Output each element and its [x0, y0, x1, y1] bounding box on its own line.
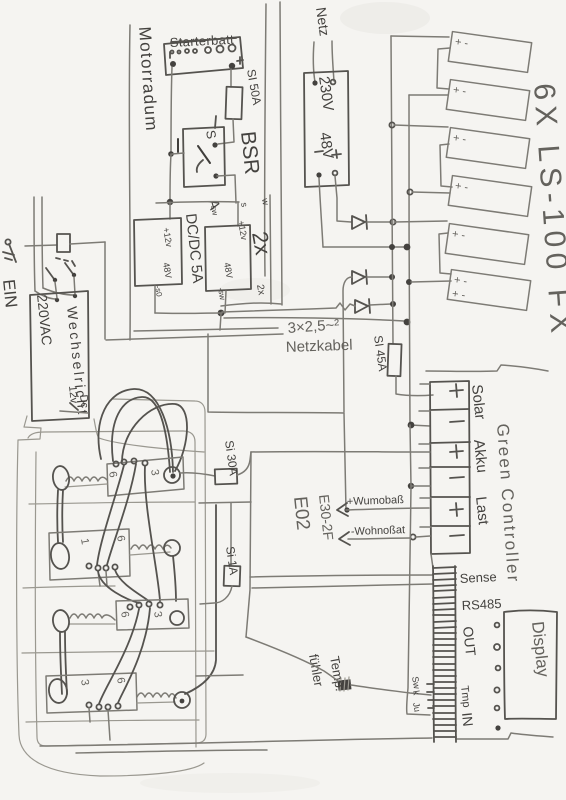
strand K1c-K3: [145, 466, 160, 601]
node bus2 solar-: [408, 422, 415, 429]
node DCDC out: [218, 310, 225, 317]
wire right DCDC bottom: [225, 291, 226, 313]
wire sensor lead to strip: [351, 685, 431, 695]
strand K2 pin drop: [98, 571, 107, 586]
wire charge feed L-shape: [208, 334, 346, 510]
wire DCDC bottom bus: [155, 312, 222, 314]
plus terminal dot: [229, 63, 235, 69]
terminal oval K1: [51, 465, 70, 491]
strip rungs group4 Tmp: [433, 664, 456, 706]
dashed switch link: [56, 258, 75, 266]
bus2 vertical: [409, 95, 410, 425]
wire to relay enclosure: [104, 242, 106, 339]
link K3-K4: [60, 632, 67, 694]
diode D3: [355, 299, 370, 313]
wire charger minus to bus: [323, 246, 405, 248]
display box: [504, 611, 557, 720]
wire left DCDC bottom: [154, 286, 156, 313]
coil K2: [131, 545, 171, 549]
svg-text:+ -: + -: [452, 132, 467, 146]
paper smudge top: [340, 2, 430, 34]
wire inverter to cabinet right: [94, 419, 204, 452]
coil K2 base: [130, 552, 170, 555]
svg-text:Sense: Sense: [459, 569, 497, 586]
plus last: [450, 503, 463, 516]
K2 pin circles: [86, 563, 117, 570]
shelf line 1: [29, 502, 195, 504]
display pin 3: [496, 666, 501, 671]
strand K1a-K2: [97, 465, 124, 565]
wire stub left low: [196, 675, 243, 676]
wire bus2 to B6: [411, 281, 451, 282]
svg-text:Netzkabel: Netzkabel: [286, 337, 353, 356]
charger 230V/48V box: [304, 71, 349, 187]
wire long rs485: [252, 584, 433, 588]
converter DC/DC right box: [205, 225, 251, 291]
strip rungs group1 Sense: [433, 567, 456, 591]
svg-text:+ -: + -: [451, 228, 466, 242]
wire bus2 top to B2: [409, 94, 448, 96]
wire N to contact: [43, 288, 74, 295]
node junction A: [167, 199, 173, 205]
wire contact down 1: [55, 282, 57, 298]
node big circle K2: [164, 540, 180, 556]
minus akku: [450, 477, 464, 478]
strip rungs group3 OUT: [433, 621, 456, 657]
display pin 2: [494, 644, 500, 650]
wire inverter out right: [60, 411, 88, 413]
terminal oval K2: [49, 542, 70, 570]
wire bottom right of strip: [456, 733, 553, 739]
display pin 4: [494, 687, 499, 692]
svg-text:+ -: + -: [452, 84, 467, 98]
wire bottom stub: [76, 750, 267, 753]
wire bus1 to B3: [394, 125, 448, 127]
minus tick BSR: [177, 139, 179, 152]
diode D1: [352, 215, 367, 229]
wire D3 to bus: [370, 304, 391, 305]
relay K3 box: [116, 599, 189, 630]
terminal circle plus out: [333, 171, 338, 176]
temp sensor body: [338, 679, 352, 690]
paper shadow bottom: [140, 773, 320, 793]
strip left stubs: [427, 684, 434, 708]
minus sign: [169, 52, 171, 58]
wire horizontal to Si1A: [199, 502, 251, 503]
battery B6: [447, 270, 530, 311]
wire long bottom IN: [40, 738, 432, 746]
flying arc 2: [112, 397, 170, 472]
series link B1-B2: [437, 48, 450, 89]
contact blade 2: [65, 263, 73, 274]
wire netz L: [313, 42, 315, 82]
terminal oval K3: [52, 609, 71, 633]
strand K1b-K2: [107, 464, 136, 565]
wire AC N vertical: [42, 197, 43, 288]
node D3 bus: [390, 301, 396, 307]
battery B5: [445, 224, 528, 265]
controller terminal block: [430, 381, 470, 554]
contact dot 2a: [72, 273, 76, 277]
fuse SI 50A: [225, 87, 242, 120]
wire sensor feed: [246, 637, 338, 681]
minus last: [450, 535, 464, 536]
switch EIN blade: [9, 244, 16, 262]
node big circle K3: [170, 611, 184, 625]
block divider 3: [430, 466, 470, 468]
contact blade 1: [46, 268, 54, 279]
wire D2 to bus: [367, 276, 390, 278]
wire bus1 top to B1: [391, 36, 449, 37]
strand K2b: [115, 570, 150, 602]
node big circle K1: [164, 467, 180, 483]
wire AC horizontal: [25, 245, 57, 246]
shelf line 3: [22, 651, 214, 653]
contact dot 1b: [55, 298, 59, 302]
terminal dot minus out: [316, 172, 321, 177]
strand K2a: [98, 571, 139, 603]
switch EIN circle: [5, 239, 10, 244]
connector strip right rail: [455, 566, 456, 742]
strikethrough on label: [171, 38, 236, 42]
plus akku: [450, 445, 463, 458]
paper smudge mid: [220, 278, 290, 302]
relay cabinet inner: [35, 399, 206, 746]
coil K3 base: [69, 623, 115, 625]
arrowhead wohnmobatt-: [339, 532, 350, 545]
node big circle K4: [174, 692, 190, 708]
link K1-K2: [57, 490, 63, 542]
wire bus2 to solar-: [410, 425, 430, 426]
relay K1 box: [107, 457, 184, 496]
arrowhead wohnmobatt+: [337, 503, 348, 516]
plus sign: [237, 57, 243, 64]
switch arc mark: [197, 160, 203, 172]
wire horizontal to DCDC: [156, 202, 239, 203]
wire starter minus down: [171, 67, 172, 154]
switch EIN base: [3, 252, 14, 260]
enclosure right vertical 2: [280, 2, 282, 305]
wire K1 circle to fuse: [180, 473, 215, 476]
wire minus bus down: [170, 154, 171, 201]
svg-text:2x: 2x: [254, 284, 267, 296]
relay cabinet outer: [17, 416, 204, 776]
wire controller to strip: [431, 554, 433, 568]
battery B1: [448, 32, 531, 73]
svg-text:+ -: + -: [451, 288, 466, 302]
wire starter plus down to fuse: [230, 69, 232, 87]
wire bus2 to akku-: [410, 425, 430, 486]
relay K4 box: [46, 673, 137, 713]
wire akku+ long (Si30A feed): [251, 451, 430, 453]
svg-text:Solar: Solar: [468, 384, 489, 421]
battery B2: [446, 80, 529, 121]
node BSR minus: [168, 151, 174, 157]
wire node to box: [172, 153, 184, 154]
svg-text:+ -: + -: [453, 274, 468, 288]
coil K1 base: [65, 484, 107, 487]
diode D2: [352, 270, 367, 284]
node bus2 B4: [407, 189, 412, 194]
svg-text:+ -: + -: [454, 36, 469, 50]
wire fuse to BSR: [218, 119, 234, 144]
wire netzkabel 3: [221, 303, 281, 306]
flying arc 3: [122, 404, 187, 471]
block divider 1: [430, 409, 469, 410]
wire fuse to controller solar+: [396, 376, 433, 396]
BSR pin lower: [213, 173, 218, 178]
tick solar-: [419, 410, 430, 412]
terminal oval K4: [47, 678, 68, 704]
node bus2 230Vminus: [404, 244, 411, 251]
enclosure left edge: [128, 25, 131, 340]
terminal circle N in: [331, 80, 336, 85]
minus sign out: [315, 151, 323, 152]
enclosure bottom edge: [106, 334, 283, 340]
svg-text:3×2,5~²: 3×2,5~²: [287, 316, 340, 337]
strand K4 drop 1: [89, 708, 90, 722]
wire long sense: [250, 575, 433, 577]
display pin 1: [495, 623, 500, 628]
coil K1: [66, 477, 107, 481]
tick akku-: [419, 467, 431, 469]
wire bus2 to B4: [412, 192, 450, 193]
wire K2 circle down: [173, 556, 176, 601]
fuse SI 45A: [387, 344, 401, 376]
svg-text:OUT: OUT: [460, 626, 479, 658]
svg-text:E02: E02: [289, 495, 313, 531]
block divider 5: [431, 525, 470, 527]
fuse Si 30A: [215, 469, 238, 485]
wire bus2 tail: [407, 486, 430, 715]
node D2 bus: [389, 274, 395, 280]
block divider 4: [431, 496, 470, 498]
series link B5-B6: [439, 233, 451, 274]
svg-text:RS485: RS485: [461, 596, 501, 613]
strip rungs group2 RS485: [433, 597, 455, 615]
battery B4: [448, 176, 531, 217]
wire L to contact: [35, 291, 56, 299]
svg-text:IN: IN: [459, 712, 476, 728]
node D1 bus: [390, 219, 395, 224]
terminal circles row: [171, 45, 236, 54]
wire D1 to bus: [367, 221, 390, 223]
battery B3: [446, 128, 529, 169]
flying arc 1: [98, 389, 173, 472]
svg-text:EIN: EIN: [0, 278, 21, 308]
shelf line 2: [23, 586, 115, 588]
wire Si1A vertical top: [230, 503, 232, 566]
svg-text:BSR: BSR: [236, 130, 263, 175]
fuse AC: [57, 234, 70, 252]
node bus1 230Vminus: [389, 244, 395, 250]
svg-text:+ -: + -: [454, 180, 469, 194]
svg-text:Ju: Ju: [411, 702, 423, 713]
node netzkabel bus2: [404, 319, 411, 326]
minus terminal dot: [170, 61, 176, 67]
wire S pin: [215, 116, 216, 128]
svg-text:Akku: Akku: [470, 439, 490, 474]
strip rungs group5 IN: [433, 713, 456, 737]
wire netzkabel 1 with zigzag: [222, 303, 355, 312]
svg-text:Dc: Dc: [77, 394, 90, 409]
svg-text:2x: 2x: [247, 230, 276, 257]
node bus1 B3: [389, 122, 394, 127]
wire contact down 2: [74, 277, 75, 294]
shelf line 4: [26, 720, 199, 722]
wire down to left DCDC: [169, 202, 171, 219]
wire K4 circle up: [185, 505, 216, 694]
temp sensor stripes: [340, 677, 349, 691]
svg-text:Tmp: Tmp: [458, 685, 472, 708]
enclosure inner bottom: [134, 328, 278, 331]
terminal dot L in: [312, 80, 317, 85]
plus solar: [450, 384, 463, 397]
svg-text:+Wumobaß: +Wumobaß: [347, 494, 405, 508]
contact dot 1a: [53, 278, 57, 282]
wire Si1A bottom: [200, 586, 232, 604]
wire vertical x251: [246, 452, 251, 637]
minus solar: [450, 421, 464, 422]
wire bus1 to B5: [394, 221, 447, 222]
wire fuse to akku+ bend: [237, 452, 251, 475]
display pin 5: [495, 706, 500, 711]
wire down to right DCDC: [237, 202, 239, 226]
wire charger plus down: [335, 176, 351, 222]
BSR pin upper: [212, 142, 217, 147]
wire last+ (+Wohnmobatt): [346, 508, 429, 510]
strand K3a-K4: [99, 609, 139, 704]
wire circle to last-: [416, 536, 430, 537]
K3 pin circles: [127, 601, 162, 609]
strand K4 drop 2: [108, 710, 110, 740]
inverter Wechselrichter box: [30, 291, 89, 421]
relay K2 box: [49, 529, 130, 580]
wire BSR lower pin out: [217, 175, 236, 203]
underline DC: [70, 403, 78, 410]
bus1 vertical: [391, 36, 393, 344]
wire charger minus down: [319, 178, 323, 247]
node charge feed: [344, 507, 349, 512]
controller enclosure top: [426, 365, 548, 371]
wire netzkabel 2: [224, 318, 404, 321]
tick last-: [420, 526, 431, 528]
svg-text:sw: sw: [209, 205, 220, 216]
block divider 2: [430, 442, 470, 443]
coil K4 base: [137, 702, 175, 703]
K4 pin circles: [86, 702, 120, 709]
tick solar+: [420, 383, 430, 385]
display pin 6: [495, 725, 500, 730]
fuse Si 1A: [224, 566, 241, 587]
wire fuse right: [70, 242, 105, 244]
tick akku+: [419, 443, 430, 445]
wire D2 anode down: [343, 277, 352, 412]
wire last- (-Wohnmobatt): [348, 538, 410, 539]
tick last+: [420, 497, 431, 499]
svg-text:Last: Last: [472, 496, 492, 527]
connector strip left rail: [433, 566, 434, 742]
terminal circle wohnmobatt-: [410, 534, 415, 539]
svg-text:-Wohnoßat: -Wohnoßat: [351, 524, 406, 538]
node bus2 akku-: [408, 483, 414, 489]
coil K4: [137, 693, 176, 698]
wire AC L vertical: [34, 197, 35, 291]
contact dot 2b: [73, 294, 77, 298]
series link B3-B4: [440, 144, 452, 187]
plus sign out: [332, 150, 341, 158]
strand K3b-K4: [118, 608, 150, 703]
switch blade: [198, 146, 210, 163]
relay BSR box: [183, 127, 225, 187]
battery Starterbatt box: [164, 37, 243, 75]
node bus2 B6: [406, 279, 412, 285]
converter DC/DC left box: [134, 218, 182, 286]
wire netz N: [332, 41, 334, 81]
enclosure right vertical 1: [265, 4, 266, 276]
wire node down: [220, 314, 221, 330]
enclosure inner right edge: [270, 195, 271, 304]
K1 pin circles: [113, 458, 147, 466]
coil K3: [70, 614, 115, 620]
